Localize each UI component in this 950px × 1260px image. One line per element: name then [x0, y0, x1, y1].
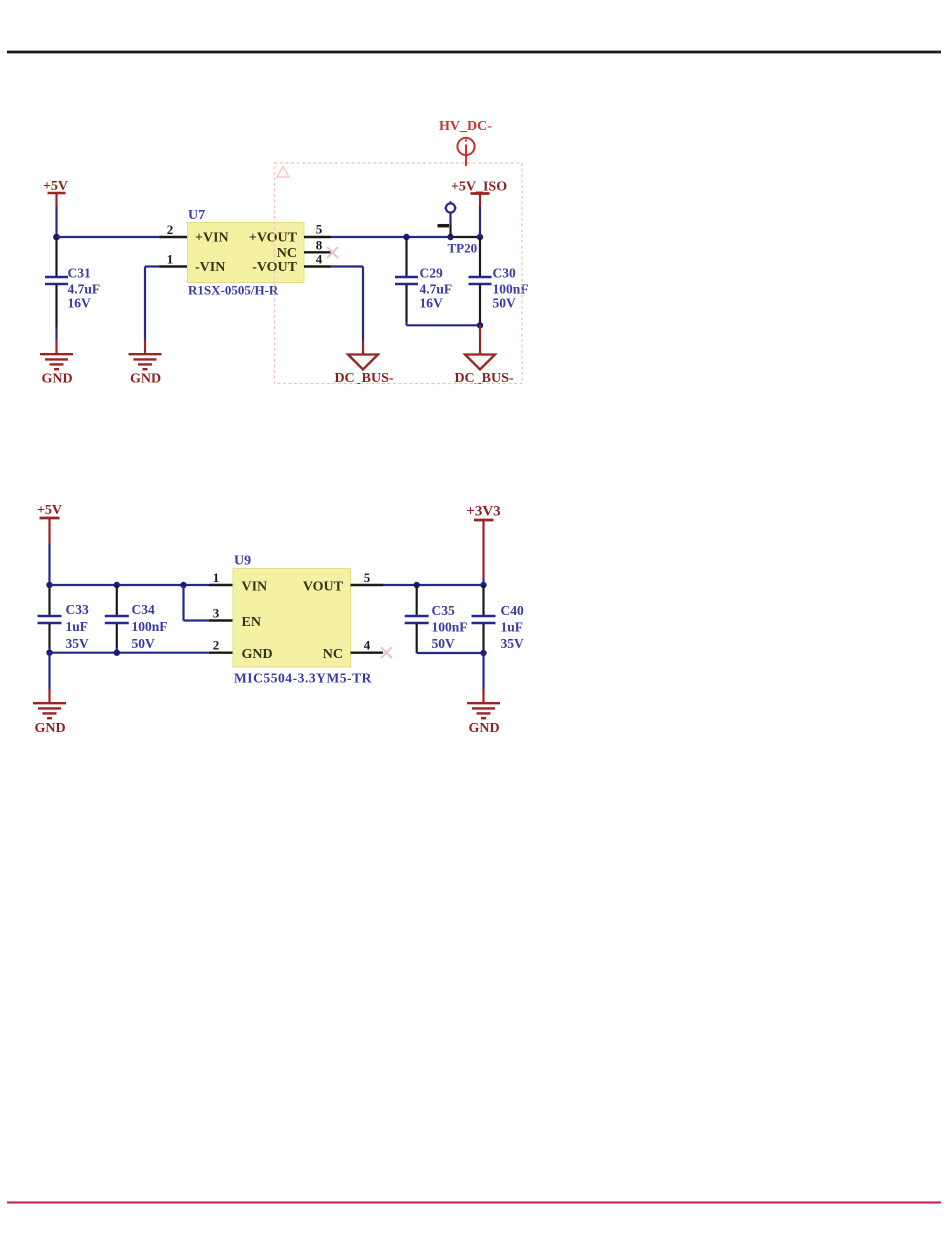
wire ground rail to U9 pin 2	[50, 652, 210, 654]
junction node at C30	[477, 234, 483, 240]
pin 1 stub	[209, 584, 233, 586]
junction node at C29	[403, 234, 409, 240]
wire +5V rail down	[55, 206, 57, 238]
wire input rail to U7 pin 2	[57, 236, 160, 238]
wire C40 bottom to GND	[482, 653, 484, 703]
pin 1 stub	[160, 265, 188, 267]
pin 5 stub	[304, 236, 331, 238]
power port +5V	[43, 179, 68, 206]
junction node input rail	[53, 234, 60, 241]
svg-text:100nF: 100nF	[132, 619, 168, 634]
svg-text:MIC5504-3.3YM5-TR: MIC5504-3.3YM5-TR	[234, 671, 372, 686]
junction node at C34 bottom	[114, 650, 120, 656]
capacitor C33	[38, 602, 90, 653]
IC U7 body	[188, 223, 305, 283]
power port +3V3	[466, 504, 500, 579]
svg-text:U7: U7	[188, 208, 205, 223]
ground GND (left of C31)	[40, 354, 73, 386]
pin 4 stub	[304, 265, 331, 267]
pin 2 stub	[209, 652, 233, 654]
svg-text:+VIN: +VIN	[195, 231, 229, 246]
svg-text:5: 5	[364, 570, 371, 585]
svg-text:GND: GND	[41, 372, 72, 387]
capacitor C30	[469, 237, 529, 325]
svg-text:GND: GND	[130, 372, 161, 387]
svg-text:50V: 50V	[432, 636, 456, 651]
junction node at C40 / +3V3	[480, 582, 486, 588]
svg-text:GND: GND	[34, 721, 65, 736]
svg-text:R1SX-0505/H-R: R1SX-0505/H-R	[188, 283, 279, 298]
svg-text:TP20: TP20	[448, 241, 478, 256]
svg-text:4.7uF: 4.7uF	[68, 282, 101, 297]
svg-text:VOUT: VOUT	[303, 580, 344, 595]
power port HV_DC-	[439, 119, 492, 166]
pin 8 stub (NC)	[304, 251, 331, 253]
pin 4 stub (NC)	[351, 652, 384, 654]
svg-text:-VIN: -VIN	[195, 260, 225, 275]
junction node at C35	[414, 582, 420, 588]
svg-text:+3V3: +3V3	[466, 504, 500, 520]
capacitor C34	[105, 585, 168, 653]
svg-text:4: 4	[364, 638, 371, 653]
svg-text:1uF: 1uF	[66, 619, 89, 634]
power port DC_BUS- (left)	[334, 355, 393, 387]
test point TP20	[438, 201, 478, 256]
wire C31 to GND	[55, 339, 57, 353]
ground GND (circuit 2 left)	[33, 703, 66, 736]
wire C29 bottom to C30 bottom	[407, 324, 481, 326]
wire +5V_ISO rail down	[479, 206, 481, 237]
no-connect cross pin 4	[381, 647, 392, 658]
wire EN branch	[184, 585, 210, 621]
junction node ground rail left	[46, 650, 52, 656]
power port +5V (circuit 2)	[37, 503, 62, 544]
sheet top rule	[7, 51, 941, 54]
svg-text:2: 2	[213, 638, 220, 653]
junction node at EN branch	[180, 582, 186, 588]
svg-text:NC: NC	[323, 647, 343, 662]
dashed directive region	[275, 163, 523, 384]
svg-text:GND: GND	[242, 647, 273, 662]
svg-text:50V: 50V	[493, 296, 517, 311]
svg-text:1: 1	[213, 570, 220, 585]
wire -VOUT to DC_BUS-	[331, 267, 364, 355]
svg-text:8: 8	[316, 238, 323, 253]
svg-text:1uF: 1uF	[501, 620, 524, 635]
svg-text:4: 4	[316, 252, 323, 267]
pin 2 stub	[160, 236, 188, 238]
svg-text:1: 1	[167, 252, 174, 267]
svg-text:5: 5	[316, 222, 323, 237]
junction node at TP20	[447, 234, 453, 240]
power port +5V_ISO	[451, 180, 507, 207]
wire U7 pin 1 to ground	[145, 267, 160, 354]
svg-text:C30: C30	[493, 266, 516, 281]
svg-text:HV_DC-: HV_DC-	[439, 119, 492, 134]
no-connect cross pin 8	[327, 247, 338, 258]
svg-text:C33: C33	[66, 602, 89, 617]
svg-text:3: 3	[213, 606, 220, 621]
svg-text:100nF: 100nF	[432, 620, 468, 635]
capacitor C35	[405, 585, 468, 653]
svg-text:C29: C29	[420, 266, 443, 281]
svg-text:50V: 50V	[132, 636, 156, 651]
wire C35 bottom to C40 bottom	[417, 652, 484, 654]
ground GND (circuit 2 right)	[467, 703, 500, 736]
svg-text:4.7uF: 4.7uF	[420, 282, 453, 297]
svg-text:C40: C40	[501, 603, 524, 618]
ground GND (below pin 1)	[129, 354, 162, 386]
svg-text:2: 2	[167, 222, 174, 237]
sheet bottom rule	[7, 1201, 941, 1203]
junction node C40 bottom	[480, 650, 486, 656]
svg-text:35V: 35V	[66, 636, 90, 651]
svg-text:16V: 16V	[68, 296, 92, 311]
svg-text:U9: U9	[234, 554, 251, 569]
wire +3V3 to VOUT node	[482, 578, 484, 585]
capacitor C40	[472, 585, 525, 653]
svg-text:GND: GND	[468, 721, 499, 736]
svg-text:+VOUT: +VOUT	[249, 231, 298, 246]
capacitor C29	[395, 237, 452, 325]
svg-text:C35: C35	[432, 603, 455, 618]
wire C30 bottom to DC_BUS-	[479, 325, 481, 354]
svg-text:35V: 35V	[501, 636, 525, 651]
IC U9 body	[233, 569, 351, 668]
svg-text:C31: C31	[68, 266, 91, 281]
wire ground rail to GND	[48, 653, 50, 703]
wire input rail to U9 pin 1	[50, 584, 210, 586]
svg-text:100nF: 100nF	[493, 282, 529, 297]
junction node C30 bottom	[477, 322, 483, 328]
svg-text:16V: 16V	[420, 296, 444, 311]
svg-text:VIN: VIN	[242, 580, 268, 595]
svg-text:NC: NC	[277, 246, 297, 261]
capacitor C31	[45, 237, 100, 339]
power port DC_BUS- (right)	[454, 355, 513, 387]
wire +5V rail down to input node	[48, 544, 50, 587]
junction node input rail	[46, 582, 52, 588]
pin 5 stub	[351, 584, 384, 586]
svg-text:+5V: +5V	[37, 503, 62, 518]
wire +VOUT net	[331, 236, 451, 238]
svg-text:EN: EN	[242, 615, 261, 630]
wire VOUT net	[383, 584, 484, 586]
junction node at C34 top	[114, 582, 120, 588]
pin 3 stub	[209, 619, 233, 621]
svg-text:C34: C34	[132, 602, 155, 617]
